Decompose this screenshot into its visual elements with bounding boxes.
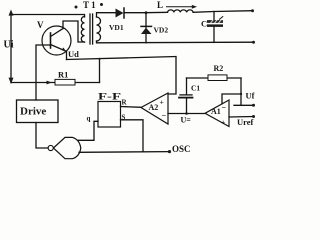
op-amp comparator A2 (141, 93, 168, 124)
wire VD1 to node (125, 12, 147, 14)
terminal output minus (252, 41, 255, 44)
node junction C1 bottom (185, 112, 188, 115)
wire emitter down (66, 51, 68, 60)
diode VD1 (116, 9, 124, 18)
svg-text:R: R (122, 99, 128, 107)
wire R input from A2 output (121, 106, 142, 109)
wire R2 down to minus node (240, 78, 242, 105)
svg-text:R1: R1 (58, 70, 68, 80)
svg-text:Uref: Uref (237, 117, 254, 127)
wire R2 feedback line (187, 77, 242, 79)
NOR gate (48, 145, 53, 150)
wire emitter sense line (67, 57, 177, 60)
diode VD2 (145, 13, 147, 28)
wire node to L (146, 11, 168, 13)
current arrow above L (167, 6, 195, 8)
svg-text:+: + (160, 98, 164, 107)
transformer T1 secondary winding (97, 17, 101, 41)
svg-text:L: L (157, 0, 163, 10)
svg-text:OSC: OSC (172, 144, 191, 154)
svg-text:T 1: T 1 (83, 0, 96, 10)
svg-text:Uf: Uf (246, 91, 255, 101)
svg-text:VD1: VD1 (109, 23, 124, 32)
transistor V (42, 26, 71, 55)
wire Uf output (234, 104, 254, 106)
node junction VD1/VD2/L (145, 11, 148, 14)
svg-text:F-F: F-F (98, 92, 122, 102)
transformer T1 primary winding (81, 17, 84, 43)
arrow up input polarity (9, 10, 14, 16)
wire Uref input (229, 116, 254, 119)
svg-text:R2: R2 (214, 64, 224, 73)
transformer T1 core (89, 14, 91, 44)
current arrow on R1 wire (41, 82, 44, 84)
capacitor C (213, 12, 215, 20)
wire A2 minus / A1 output line (168, 113, 205, 115)
flip-flop F-F box (98, 102, 121, 128)
svg-text:−: − (162, 111, 167, 120)
svg-text:Ud: Ud (68, 49, 79, 59)
svg-text:Drive: Drive (20, 106, 46, 118)
arrow down input polarity (9, 78, 14, 84)
dot polarity mark left of T1 (75, 6, 78, 9)
resistor R2 (208, 75, 227, 81)
wire A1 minus input up (222, 94, 241, 104)
node Ui input source line (10, 13, 12, 83)
svg-text:V: V (37, 20, 44, 30)
svg-text:C1: C1 (191, 84, 200, 93)
svg-text:Ui: Ui (4, 40, 14, 51)
svg-text:U=: U= (181, 116, 192, 125)
wire L to output + (193, 11, 252, 13)
dot polarity mark right of T1 (100, 3, 103, 6)
wire collector to primary bottom (63, 21, 85, 42)
svg-text:C: C (201, 19, 207, 29)
wire q output to gate (78, 121, 98, 140)
wire base lead (36, 45, 51, 100)
resistor R1 (55, 79, 75, 85)
wire sense down to R1 (99, 59, 101, 83)
svg-text:VD2: VD2 (154, 26, 169, 35)
svg-text:+: + (221, 118, 225, 127)
terminal output plus (251, 9, 254, 12)
inductor L coil (168, 10, 194, 13)
svg-text:A2: A2 (149, 103, 159, 112)
wire top rail primary (11, 15, 85, 18)
wire sense to A2 plus input (168, 57, 176, 94)
svg-text:S: S (122, 114, 126, 122)
wire OSC line (79, 151, 170, 154)
wire secondary top (97, 13, 116, 17)
wire bottom rail secondary (97, 41, 254, 43)
op-amp error amplifier A1 (205, 100, 229, 127)
svg-text:q: q (87, 115, 91, 123)
wire S input from OSC (121, 120, 144, 152)
wire gate output to Drive (36, 123, 48, 149)
svg-text:−: − (222, 103, 227, 112)
Drive box (17, 100, 59, 123)
svg-text:A1: A1 (211, 107, 221, 116)
wire bottom rail primary (11, 82, 100, 84)
capacitor C1 (186, 78, 188, 94)
